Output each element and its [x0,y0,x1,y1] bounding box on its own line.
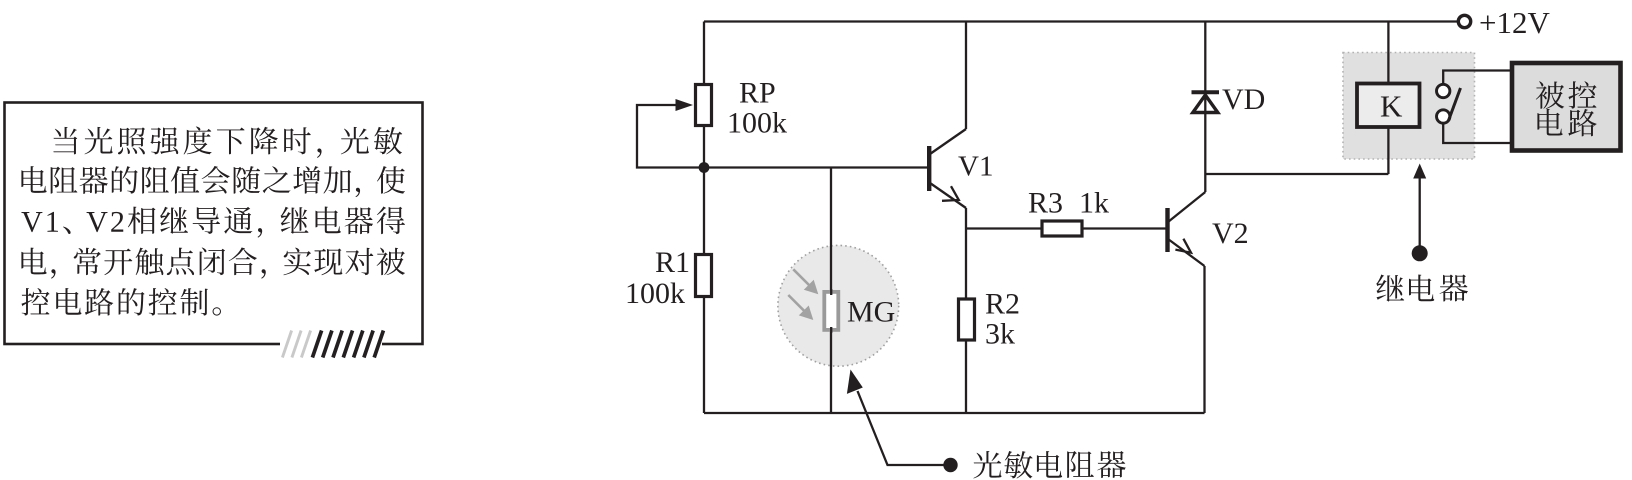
svg-text:V1: V1 [958,151,993,183]
label V2 [1212,217,1249,250]
resistor R3 [1042,221,1082,236]
paragraph line 3 [21,206,405,237]
wire MG branch [830,168,832,414]
label MG [847,296,895,329]
resistor R1 [696,255,712,297]
label K [1380,89,1403,124]
svg-text:K: K [1380,89,1403,124]
transistor V2 [1165,192,1205,413]
relay coil K [1357,84,1420,128]
label controlled circuit [1536,81,1597,109]
relay block background [1343,53,1475,160]
label R1 value [625,246,690,310]
svg-text:R1: R1 [655,246,690,279]
diode VD [1192,92,1220,112]
svg-text:1k: 1k [1079,187,1109,220]
svg-text:R3: R3 [1028,187,1063,220]
relay pointer arrow [1412,164,1428,262]
svg-text:+12V: +12V [1479,5,1550,40]
paragraph line 4 [21,247,405,278]
resistor R2 [959,299,975,340]
hatch marks [282,331,383,358]
photoresistor pointer arrow [847,370,958,473]
wire VD vertical [1204,22,1206,193]
paragraph line 2 [21,166,405,197]
terminal +12V [1458,15,1470,27]
svg-text:100k: 100k [727,107,787,140]
label R3 value [1028,187,1109,220]
svg-text:RP: RP [739,77,776,110]
wire base rail to V1 [704,166,928,168]
label photoresistor (guangmin dianzuqi) [973,451,1125,478]
label R2 value [985,288,1020,351]
switch contacts [1437,84,1461,123]
photoresistor MG body [824,289,838,333]
svg-text:3k: 3k [985,318,1015,351]
light arrows onto MG [788,269,818,320]
wire contact to load bottom [1443,123,1510,143]
wire V1 emitter to V2 base [966,227,1166,229]
transistor V1 [927,22,966,414]
wire collector to relay [1205,173,1388,175]
wire top rail [704,20,1458,22]
paragraph line 1 [53,126,402,157]
svg-text:V2: V2 [1212,217,1249,250]
node junction dot [699,162,710,173]
wire relay coil [1387,22,1389,175]
svg-text:MG: MG [847,296,895,329]
label VD [1222,83,1265,116]
wire bottom rail [704,412,1205,414]
wire left vertical (RP/R1 branch) [703,22,705,414]
photoresistor MG circle [778,245,899,366]
label +12V [1479,5,1550,40]
label V1 [958,151,993,183]
wire RP wiper [637,99,704,168]
svg-text:100k: 100k [625,277,685,310]
description box [5,103,423,348]
label RP value [727,77,787,140]
wire contact to load top [1443,71,1510,85]
paragraph line 5 [21,288,221,316]
label relay (jidianqi) [1376,274,1468,301]
svg-text:R2: R2 [985,288,1020,321]
svg-text:VD: VD [1222,83,1265,116]
controlled circuit box [1512,63,1621,151]
resistor RP (potentiometer) [696,85,712,126]
